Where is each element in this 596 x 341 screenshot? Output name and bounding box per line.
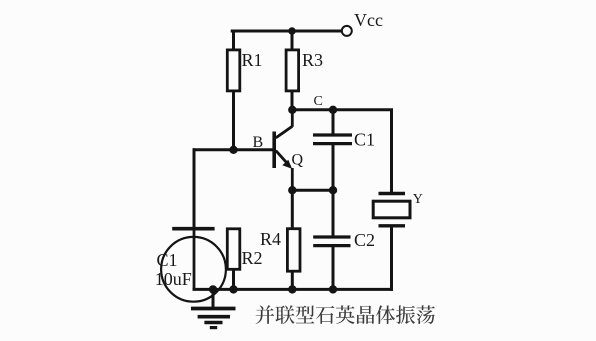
Vcc terminal circle [342, 26, 352, 36]
svg-text:C2: C2 [354, 230, 375, 250]
svg-text:10uF: 10uF [155, 269, 192, 289]
svg-text:R2: R2 [242, 248, 263, 268]
crystal Y top plate [379, 192, 406, 195]
svg-text:C: C [314, 94, 323, 109]
electrolytic capacitor C1 10uF : top plate [172, 227, 214, 231]
resistor R1 [227, 50, 240, 91]
wire R2 bottom lead [232, 270, 235, 290]
wire crystal bottom lead [390, 227, 393, 289]
svg-text:Q: Q [292, 152, 304, 169]
svg-text:R3: R3 [302, 50, 323, 70]
svg-text:B: B [253, 134, 264, 151]
wire R1 bottom lead [232, 91, 235, 150]
svg-text:C1: C1 [157, 250, 178, 270]
resistor R2 [227, 229, 240, 269]
capacitor C1 plates [313, 133, 352, 136]
junction dot C1/C2 mid [329, 186, 337, 194]
resistor R4 [287, 229, 300, 272]
junction dot emitter node [288, 186, 296, 194]
wire C2 bottom lead [332, 246, 335, 290]
wire left branch down to C1 electrolytic [193, 150, 196, 227]
junction dot R4 bottom [288, 285, 296, 293]
transistor Q collector diagonal [276, 126, 293, 138]
junction dot C1 top [329, 106, 337, 114]
transistor Q collector vertical [291, 110, 294, 127]
wire emitter to R4 [291, 190, 294, 229]
svg-text:R4: R4 [260, 229, 281, 249]
transistor Q emitter diagonal with arrow [276, 151, 290, 167]
wire ground stub [212, 289, 215, 306]
caption 并联型石英晶体振荡 [256, 305, 435, 324]
junction dot base node [229, 146, 237, 154]
electrolytic capacitor inner lead [193, 231, 196, 290]
svg-text:C1: C1 [354, 129, 375, 149]
junction dot collector node [288, 106, 296, 114]
transistor Q base bar [272, 132, 276, 169]
wire R4 bottom lead [291, 271, 294, 289]
svg-text:R1: R1 [242, 50, 263, 70]
capacitor C2 plates [313, 235, 350, 238]
wire C2 top lead [332, 190, 335, 237]
crystal Y bottom plate [379, 224, 406, 227]
ground symbol [191, 309, 236, 328]
wire C1 top lead [332, 110, 335, 135]
junction dot C2 bottom [329, 285, 337, 293]
junction dot ground [209, 285, 217, 293]
resistor R3 [286, 50, 299, 91]
svg-text:Y: Y [413, 192, 423, 207]
wire top rail [232, 30, 341, 33]
electrolytic capacitor case circle [161, 237, 226, 302]
wire R3 top lead [291, 31, 294, 51]
crystal Y body [373, 201, 410, 218]
wire emitter rail [292, 189, 333, 192]
wire bottom rail [194, 288, 392, 291]
wire C1 bottom lead [332, 144, 335, 190]
junction dot top rail [288, 27, 296, 35]
junction dot R2 bottom [229, 285, 237, 293]
wire collector rail (node C) [292, 110, 392, 192]
wire R1 top lead [232, 31, 235, 51]
svg-text:Vcc: Vcc [354, 10, 383, 30]
wire base horizontal [194, 148, 272, 151]
transistor Q emitter vertical [291, 168, 294, 190]
wire R3 bottom lead [291, 91, 294, 110]
